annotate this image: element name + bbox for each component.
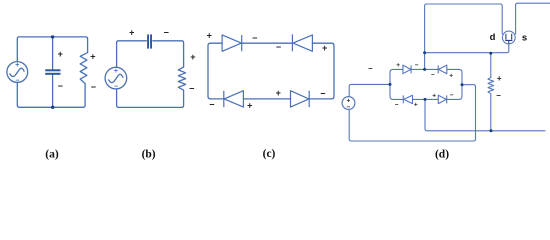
wire: mid rail from bridge-top node to transistor bottom: [425, 44, 509, 53]
diode D3 (bottom-left, points left): [224, 91, 244, 107]
svg-text:+: +: [15, 62, 19, 69]
wire: transistor s to top-right rail: [516, 3, 550, 34]
wire: (c) left side: [208, 43, 211, 99]
svg-text:−: −: [114, 83, 118, 90]
node: C1 bottom junction: [51, 106, 54, 109]
node: C1 top junction: [51, 35, 54, 38]
svg-text:(c): (c): [263, 148, 276, 160]
diode D4 (bottom-right, points right): [291, 91, 310, 107]
svg-text:+: +: [114, 68, 118, 75]
capacitor C2 plates: [147, 34, 152, 48]
wire: bridge top segments: [393, 68, 459, 70]
svg-text:−: −: [252, 33, 257, 43]
svg-text:+: +: [207, 31, 212, 41]
svg-text:+: +: [58, 49, 63, 59]
diode D7 (bridge bottom-left, points left): [403, 95, 412, 103]
ac source V2: [105, 67, 127, 89]
capacitor C1 plates: [45, 69, 60, 75]
node: bridge top junction: [423, 68, 426, 71]
ac source V1: [7, 62, 28, 83]
capacitor C1 branch wire bottom: [52, 75, 54, 108]
svg-text:(d): (d): [435, 148, 449, 160]
svg-text:(b): (b): [142, 148, 156, 160]
svg-text:+: +: [449, 73, 453, 80]
svg-text:−: −: [415, 62, 419, 69]
wire: (a) bottom+left loop: [17, 82, 85, 107]
svg-text:−: −: [450, 92, 454, 99]
transistor M1 circle: [502, 31, 515, 44]
svg-text:s: s: [522, 33, 527, 44]
resistor R3 top lead: [490, 53, 492, 77]
svg-text:d: d: [490, 32, 496, 43]
diode D6 (bridge top-right, points left): [438, 65, 447, 74]
resistor R1 zigzag: [80, 53, 87, 84]
svg-text:+: +: [396, 62, 400, 69]
svg-text:−: −: [347, 104, 351, 111]
svg-text:−: −: [189, 84, 194, 94]
resistor R3 bottom lead: [490, 94, 492, 131]
resistor R2 zigzag: [117, 67, 186, 107]
dc source V3: [342, 97, 355, 110]
resistor R3 zigzag: [488, 77, 494, 94]
wire: (c) top segments: [211, 42, 332, 44]
wire: (c) right side: [332, 43, 335, 99]
svg-text:−: −: [395, 101, 399, 108]
svg-text:+: +: [90, 52, 95, 62]
svg-text:(a): (a): [45, 148, 59, 160]
node: resistor bottom junction: [490, 129, 493, 132]
svg-text:−: −: [496, 91, 501, 100]
node: resistor top junction: [489, 52, 492, 55]
capacitor C1 branch wire top: [52, 37, 54, 69]
node: mid rail T junction: [423, 51, 426, 54]
wire: bridge top node to top rail to transistor d: [425, 4, 503, 69]
node: bridge right junction: [461, 83, 464, 86]
svg-text:+: +: [414, 101, 418, 108]
wire: bridge rounded rect sides: [390, 69, 393, 99]
svg-text:−: −: [209, 100, 214, 110]
wire: bridge bottom node to bottom rail: [425, 99, 545, 130]
diode D8 (bridge bottom-right, points right): [438, 95, 446, 103]
svg-text:−: −: [368, 64, 373, 73]
wire: (c) bottom segments: [211, 98, 332, 100]
svg-text:−: −: [91, 82, 96, 92]
node: bridge bottom junction: [424, 98, 427, 101]
svg-text:+: +: [276, 88, 281, 98]
svg-text:−: −: [164, 27, 169, 37]
diode D1 (top-left, points right): [222, 35, 242, 51]
svg-text:−: −: [320, 89, 325, 99]
svg-text:+: +: [247, 100, 252, 110]
svg-text:−: −: [276, 42, 281, 52]
svg-text:−: −: [431, 72, 435, 79]
wire: (a) top+left loop: [17, 37, 87, 62]
svg-text:+: +: [322, 43, 327, 53]
svg-text:+: +: [432, 93, 436, 100]
node: bridge left junction: [389, 83, 392, 86]
wire: (b) top-right + right lead: [153, 41, 184, 67]
transistor M1 internal glyph: [505, 34, 512, 44]
svg-text:−: −: [58, 81, 63, 91]
wire: (b) top-left: [117, 41, 147, 68]
svg-text:+: +: [497, 74, 502, 83]
wire: source top lead to bridge left: [349, 84, 390, 96]
svg-text:+: +: [190, 52, 195, 62]
diode D5 (bridge top-left, points right): [403, 65, 411, 74]
wire: source bottom loop to bridge right: [349, 85, 475, 141]
svg-text:+: +: [129, 28, 134, 38]
svg-text:−: −: [15, 77, 19, 84]
wire: bridge bottom segments: [393, 98, 459, 100]
diode D2 (top-right, points left): [292, 34, 312, 51]
